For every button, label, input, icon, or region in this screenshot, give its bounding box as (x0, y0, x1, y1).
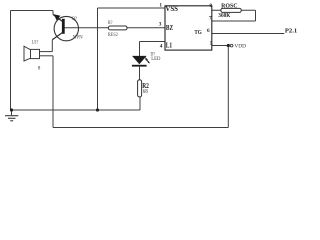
wire ROSC loop to pin7 (212, 20, 256, 22)
svg-text:360K: 360K (218, 13, 230, 19)
svg-text:1: 1 (159, 2, 162, 8)
wire pin4 L1 horizontal (140, 41, 166, 43)
svg-text:VDD: VDD (234, 43, 246, 49)
svg-text:VSS: VSS (165, 6, 178, 13)
wire ROSC loop right vertical (255, 10, 257, 21)
wire speaker top terminal (40, 51, 53, 53)
wire ground bus (11, 109, 141, 111)
wire LED to R2 (139, 67, 141, 80)
resistor ROSC 360K (218, 3, 241, 19)
svg-text:8: 8 (209, 3, 212, 9)
svg-text:RES2: RES2 (108, 33, 118, 38)
ground (5, 110, 18, 121)
svg-text:7: 7 (209, 15, 212, 21)
svg-text:8: 8 (38, 65, 41, 71)
svg-text:Q?: Q? (72, 16, 78, 22)
speaker LS? (24, 41, 41, 72)
terminal VDD (230, 43, 246, 49)
wire pin6 TG to P2.1 (212, 33, 284, 35)
svg-text:5: 5 (210, 41, 213, 47)
wire VSS pin1 horizontal (98, 7, 166, 9)
LED D? (132, 52, 161, 66)
wire collector to speaker vertical (51, 40, 53, 52)
svg-text:6: 6 (207, 28, 210, 34)
svg-text:LS?: LS? (32, 41, 39, 46)
wire base / R? / BZ net (65, 27, 166, 29)
transistor Q? (52, 14, 83, 41)
wire pin4 to LED vertical (139, 42, 141, 57)
wire emitter vertical (52, 11, 54, 15)
IC U1 (159, 2, 213, 50)
wire top-left frame horizontal (11, 10, 54, 12)
svg-text:4: 4 (160, 44, 163, 50)
svg-text:68: 68 (143, 89, 148, 95)
svg-text:P2.1: P2.1 (285, 28, 297, 35)
wire R2 to ground bus (139, 97, 141, 110)
svg-text:BZ: BZ (166, 25, 174, 32)
svg-text:LED: LED (151, 57, 161, 62)
wire VDD vertical (227, 46, 229, 128)
wire bottom bus (53, 127, 228, 129)
wire VSS to ground vertical (97, 8, 99, 110)
svg-text:R?: R? (108, 21, 113, 26)
svg-text:ROSC: ROSC (221, 3, 237, 9)
wire speaker bottom terminal (40, 55, 54, 57)
junction VDD (227, 44, 230, 47)
svg-text:3: 3 (159, 21, 162, 27)
junction VSS-ground (96, 108, 99, 111)
wire left frame vertical (10, 11, 12, 111)
svg-text:L1: L1 (166, 43, 173, 50)
wire pin5 to VDD (212, 45, 230, 47)
wire pin8 to ROSC (212, 9, 256, 11)
junction ground (10, 108, 13, 111)
resistor R2 68 (138, 80, 150, 97)
svg-text:TG: TG (194, 29, 201, 36)
wire speaker bottom vertical (52, 56, 54, 128)
svg-text:NPN: NPN (73, 35, 83, 40)
resistor R? RES2 (108, 21, 127, 38)
